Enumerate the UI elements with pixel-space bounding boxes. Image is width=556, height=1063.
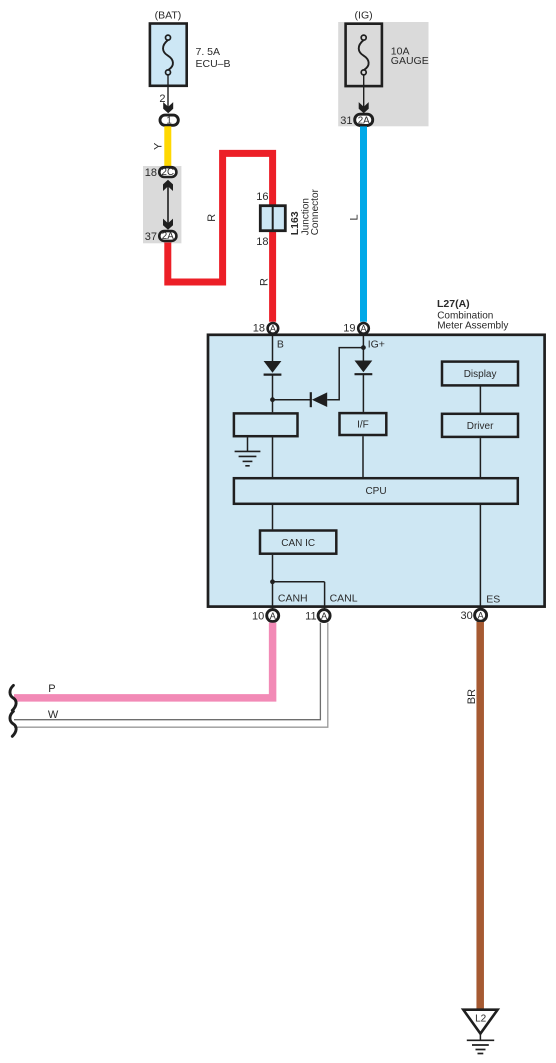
svg-text:30: 30 xyxy=(461,610,473,622)
svg-text:CAN IC: CAN IC xyxy=(281,538,315,549)
svg-text:Display: Display xyxy=(464,369,497,380)
svg-text:GAUGE: GAUGE xyxy=(391,55,429,67)
svg-text:Meter Assembly: Meter Assembly xyxy=(437,321,508,332)
svg-text:(BAT): (BAT) xyxy=(155,9,182,21)
svg-text:ECU–B: ECU–B xyxy=(196,58,231,70)
svg-text:L163: L163 xyxy=(289,211,301,235)
svg-text:L27(A): L27(A) xyxy=(437,298,470,310)
svg-text:B: B xyxy=(277,338,284,350)
svg-text:10: 10 xyxy=(252,611,264,623)
svg-text:A: A xyxy=(360,323,366,333)
svg-text:BR: BR xyxy=(466,689,478,704)
svg-text:IG+: IG+ xyxy=(368,339,385,351)
svg-text:(IG): (IG) xyxy=(355,9,373,21)
svg-text:CANL: CANL xyxy=(330,593,358,605)
svg-text:CANH: CANH xyxy=(278,593,308,605)
svg-text:7. 5A: 7. 5A xyxy=(196,46,221,58)
svg-text:2: 2 xyxy=(159,93,165,105)
svg-text:Y: Y xyxy=(152,142,164,150)
svg-text:I/F: I/F xyxy=(357,420,369,431)
svg-text:ES: ES xyxy=(486,593,500,605)
svg-text:A: A xyxy=(270,323,276,333)
svg-text:18: 18 xyxy=(256,236,268,248)
svg-text:Driver: Driver xyxy=(467,421,494,432)
svg-text:CPU: CPU xyxy=(365,486,386,497)
svg-text:A: A xyxy=(270,611,276,621)
svg-text:A: A xyxy=(478,611,484,621)
svg-text:18: 18 xyxy=(145,167,157,179)
svg-text:A: A xyxy=(321,611,327,621)
svg-text:Connector: Connector xyxy=(310,188,321,235)
svg-text:16: 16 xyxy=(256,191,268,203)
svg-text:W: W xyxy=(48,709,59,721)
svg-text:11: 11 xyxy=(305,611,316,623)
svg-text:31: 31 xyxy=(340,115,352,127)
svg-text:2A: 2A xyxy=(162,231,174,242)
svg-text:R: R xyxy=(206,214,218,222)
svg-text:P: P xyxy=(48,683,55,695)
svg-text:1: 1 xyxy=(166,116,171,127)
svg-text:L: L xyxy=(348,214,360,220)
svg-text:18: 18 xyxy=(253,323,265,335)
svg-text:R: R xyxy=(259,278,271,286)
svg-text:19: 19 xyxy=(343,323,355,335)
svg-text:L2: L2 xyxy=(475,1013,487,1024)
svg-text:2A: 2A xyxy=(358,115,370,126)
svg-text:37: 37 xyxy=(145,231,157,243)
svg-text:2C: 2C xyxy=(162,167,175,178)
